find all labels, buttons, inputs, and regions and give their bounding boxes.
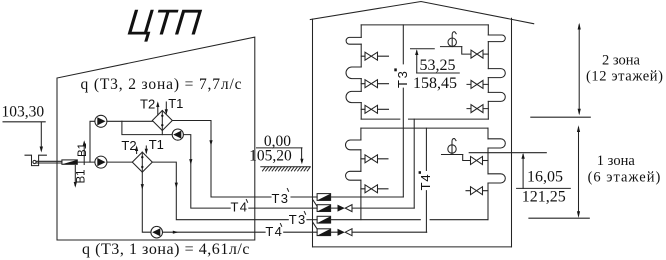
water inlet symbol	[25, 155, 46, 165]
svg-text:1 зона: 1 зона	[597, 153, 636, 169]
svg-text:Т3: Т3	[272, 191, 290, 206]
wire row1 to riser Т3	[331, 196, 404, 198]
label В1 (up)	[77, 140, 89, 164]
elevator row 4	[317, 229, 331, 236]
label 1 зона (6 этажей)	[588, 153, 662, 186]
label 2 зона (12 этажей)	[586, 53, 664, 85]
label Т3 prime on line 1	[272, 189, 290, 207]
valve zone2 left 3	[361, 105, 388, 113]
zone 2 right wall	[487, 25, 489, 119]
svg-text:В1: В1	[77, 143, 89, 157]
jumper wall to row2	[313, 199, 318, 206]
wire ТО2 bottom to pump Н4	[142, 172, 151, 232]
valve zone1 left 1	[361, 155, 388, 163]
label Т4 second prime on line 4	[265, 224, 283, 240]
dimension line zone 2	[578, 23, 581, 116]
radiator zone2 right 2	[488, 35, 505, 42]
ground line with hatching	[261, 167, 310, 171]
pump Н1	[95, 115, 107, 127]
svg-text:В1: В1	[76, 169, 88, 183]
valve zone2 right 1	[471, 50, 488, 58]
label Т3 on riser	[394, 68, 410, 88]
valve zone1 right 1	[471, 157, 489, 165]
label Т4 prime on line 2	[231, 200, 249, 215]
svg-text:121,25: 121,25	[522, 189, 566, 206]
pump Н2 (return, zone 2)	[172, 129, 183, 140]
dimension line zone 1	[577, 125, 580, 218]
wire row3 / zone1 block bottom	[331, 219, 488, 221]
valve zone2 right 3	[467, 105, 488, 113]
heat exchanger ТО1 (zone 2)	[152, 111, 172, 135]
riser Т4 (zone 1)	[425, 128, 427, 232]
radiator zone2 left 3	[346, 91, 361, 102]
zone 2 left wall	[360, 25, 362, 119]
wire vent to valve zone1 right 1	[463, 155, 471, 161]
ground level mark 0,00 / 105,20	[249, 133, 303, 165]
svg-text:Т4: Т4	[418, 174, 433, 191]
radiator zone1 right 2	[488, 174, 505, 183]
svg-text:Т3: Т3	[289, 212, 307, 227]
radiator zone1 right 1	[488, 139, 505, 148]
wire pump Н2 to return line Т4 zone2	[183, 135, 230, 209]
svg-text:105,20: 105,20	[249, 148, 292, 165]
building bottom	[313, 246, 512, 248]
wire line4 to building	[284, 231, 317, 233]
svg-text:53,25: 53,25	[420, 57, 456, 74]
wire line3 to building	[307, 219, 317, 221]
pump Н3	[95, 156, 107, 168]
svg-text:16,05: 16,05	[527, 168, 563, 185]
level line zone1 top	[469, 152, 546, 154]
labels Т2 Т1 at exchanger ТО2	[121, 137, 163, 155]
zone 2 bottom edge	[361, 118, 488, 120]
wire filter to pump Н3	[77, 161, 95, 163]
wire pump Н1 line to pump Н2 line	[122, 121, 172, 134]
wire pump Н4 to return line Т4 zone1	[163, 231, 266, 233]
roof	[310, 2, 533, 24]
svg-text:158,45: 158,45	[413, 75, 457, 92]
elevator row 3	[317, 216, 331, 223]
elevator row 2	[317, 205, 331, 212]
valve zone2 left 1	[361, 52, 388, 60]
wire pump Н1 to heat exchanger	[107, 120, 152, 122]
zone 2 block top edge with attached right radiator	[361, 24, 488, 26]
wire ТО1 to supply line Т3 zone2	[172, 121, 271, 198]
tick bottom zone 1	[529, 217, 589, 219]
valve zone1 right 2	[466, 187, 488, 195]
label В1 (down)	[74, 166, 88, 188]
radiator zone2 left 2	[346, 67, 361, 79]
flow arrow right	[173, 231, 179, 234]
building right wall	[511, 18, 513, 247]
flow arrow down	[141, 184, 144, 190]
wire ТО2 to supply line Т3 zone1	[152, 162, 288, 220]
radiator zone2 right 3	[488, 92, 505, 101]
filter on В1 inlet	[62, 160, 77, 164]
svg-text:103,30: 103,30	[2, 104, 45, 121]
flow arrow down	[175, 183, 178, 189]
svg-text:(12 этажей): (12 этажей)	[586, 69, 664, 85]
radiator zone2 right 2b	[488, 69, 505, 78]
elevation mark 53,25 / 158,45	[411, 49, 460, 92]
flow arrow down	[209, 140, 212, 146]
labels Т2 Т1 at exchanger ТО1	[140, 96, 183, 115]
flow arrow down	[189, 159, 192, 165]
riser В1 to pump Н1	[90, 121, 95, 162]
svg-text:Т4: Т4	[265, 224, 283, 239]
radiator zone2 left 1	[346, 37, 361, 44]
label Т4 on riser	[418, 171, 433, 190]
svg-text:Т4: Т4	[231, 200, 249, 215]
valve zone1 left 2	[361, 185, 388, 193]
svg-text:Т1: Т1	[168, 96, 183, 111]
wire pump Н3 to heat exchanger ТО2	[107, 161, 132, 163]
valve zone2 right 2	[467, 80, 488, 88]
building left wall	[312, 19, 314, 247]
elevator row 1	[317, 194, 331, 201]
svg-text:(6 этажей): (6 этажей)	[588, 169, 662, 185]
svg-text:q (Т3, 1 зона) = 4,61л/с: q (Т3, 1 зона) = 4,61л/с	[82, 241, 250, 258]
svg-text:ЦТП: ЦТП	[126, 1, 204, 42]
svg-text:q (Т3, 2 зона) = 7,7л/с: q (Т3, 2 зона) = 7,7л/с	[81, 76, 243, 93]
zone 1 left wall	[360, 128, 362, 220]
check valve row 4	[331, 229, 427, 236]
svg-text:2 зона: 2 зона	[602, 53, 641, 69]
heat exchanger ТО2 (zone 1)	[132, 152, 152, 172]
radiator zone1 left 2	[346, 171, 361, 180]
elevation label 103,30	[2, 104, 46, 153]
air vent zone 2	[441, 32, 462, 47]
svg-text:Т1: Т1	[149, 137, 164, 152]
zone 1 block top edge	[361, 127, 488, 129]
label Т3 second prime on line 3	[289, 212, 307, 228]
wire line1 to building	[291, 196, 317, 198]
pipe В1 double line	[37, 161, 62, 163]
svg-text:Т2: Т2	[121, 138, 136, 153]
elevation mark 16,05 / 121,25	[517, 153, 571, 206]
riser Т3 (zone 2 supply)	[402, 25, 404, 197]
svg-text:Т3: Т3	[395, 69, 410, 88]
wire vent to valve zone2 right 1	[462, 47, 471, 55]
ЦТП building outline	[57, 37, 255, 240]
riser Т4 (zone 2 return)	[413, 119, 415, 208]
svg-text:Т2: Т2	[140, 97, 155, 112]
check valve row 2	[331, 205, 415, 212]
jumper wall to row4	[313, 222, 318, 229]
pump Н4 (return, zone 1)	[151, 226, 163, 238]
air vent zone 1	[442, 139, 463, 155]
valve zone2 left 2	[361, 80, 388, 88]
zone 1 right wall	[487, 128, 489, 220]
wire line2 to building	[249, 207, 317, 209]
radiator zone1 left 1	[346, 140, 361, 150]
tick between zones	[531, 116, 591, 118]
